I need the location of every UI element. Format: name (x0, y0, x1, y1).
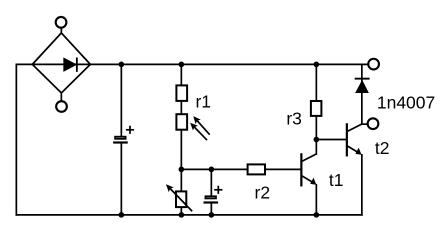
junction top rail / r1 (179, 62, 185, 68)
wire r1 to LDR (180, 102, 182, 114)
junction mid wire / C2 (209, 167, 215, 173)
LDR light arrow 1 (193, 116, 209, 134)
transistor t1 (NPN) (301, 154, 316, 185)
junction top rail / r3 (314, 62, 320, 68)
junction bottom rail / C1 (119, 212, 125, 218)
bridge rectifier outline (32, 33, 90, 93)
junction r3 / t1 collector / t2 base (314, 137, 320, 143)
svg-text:t2: t2 (375, 138, 390, 158)
wire node to t2 base (316, 139, 346, 141)
capacitor C1 (polarized) (114, 127, 133, 143)
wire mid rail (181, 168, 247, 170)
potentiometer (variable resistor) (166, 184, 192, 210)
terminal output top (368, 59, 379, 70)
LDR light arrow 2 (190, 123, 206, 140)
wire bottom rail (16, 214, 362, 216)
wire r1 branch top (180, 64, 182, 85)
wire t1 collector up to node (315, 140, 317, 155)
wire capacitor C1 branch bottom (120, 144, 122, 215)
transistor t2 (NPN) (347, 124, 362, 155)
wire r2 to t1 base (266, 168, 300, 170)
wire capacitor C1 branch top (120, 64, 122, 136)
junction bottom rail / t1 emitter (314, 212, 320, 218)
wire left side (from bridge left vertex down to bottom rail) (16, 64, 32, 215)
wire pot top (180, 169, 182, 191)
resistor r1 (176, 85, 187, 101)
svg-text:t1: t1 (329, 170, 344, 190)
wire diode branch (from top rail down) (361, 64, 363, 124)
wire capacitor C2 bottom (210, 204, 212, 215)
terminal output bottom (368, 118, 379, 129)
resistor r2 (248, 164, 265, 174)
wire top rail (90, 63, 368, 65)
wire LDR to mid node (180, 131, 182, 170)
wire pot bottom (180, 208, 182, 215)
wire r3 bottom to node (315, 117, 317, 139)
svg-text:r2: r2 (255, 183, 271, 203)
junction top rail / C1 (119, 62, 125, 68)
photoresistor LDR (176, 114, 187, 130)
junction bottom rail / C2 (209, 212, 215, 218)
svg-text:1n4007: 1n4007 (377, 93, 435, 113)
capacitor C2 (polarized) (205, 187, 222, 203)
wire t2 collector to output terminal (362, 123, 368, 125)
resistor r3 (311, 101, 322, 116)
wire r3 top (315, 64, 317, 100)
wire capacitor C2 top (210, 169, 212, 196)
terminal AC bottom (56, 93, 67, 112)
svg-text:r3: r3 (286, 108, 302, 128)
wire through bridge (anode to cathode path) (32, 63, 90, 65)
junction mid wire / LDR / pot (179, 167, 185, 173)
diode D1 1n4007 (cathode up) (355, 79, 369, 93)
bridge diode (inside bridge, pointing right) (64, 58, 77, 71)
wire t2 emitter down to bottom rail corner (361, 155, 363, 215)
terminal AC top (56, 17, 67, 33)
svg-text:r1: r1 (195, 91, 211, 111)
junction bottom rail / pot (179, 212, 185, 218)
wire t1 emitter down to bottom rail (315, 185, 317, 215)
